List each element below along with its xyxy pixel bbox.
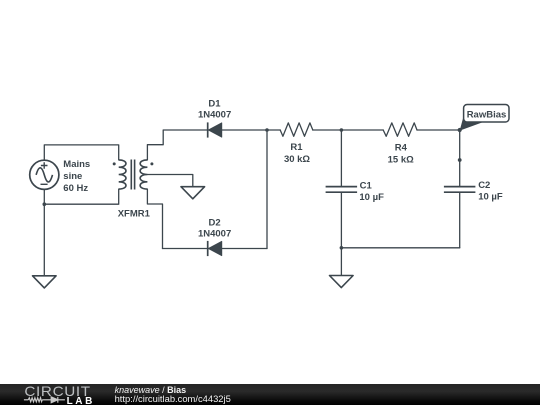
svg-text:R1: R1 xyxy=(290,142,303,153)
wire R1 to node B xyxy=(313,129,342,131)
diode D1 xyxy=(208,122,222,137)
svg-text:C2: C2 xyxy=(478,180,490,191)
svg-text:C1: C1 xyxy=(360,181,373,192)
wire to middle ground xyxy=(340,248,342,276)
wire source bottom xyxy=(43,189,45,204)
diode D2 xyxy=(208,241,222,256)
svg-text:XFMR1: XFMR1 xyxy=(118,209,151,220)
label D1 xyxy=(198,98,231,120)
wire C2 bottom lead xyxy=(459,192,461,248)
ground center tap xyxy=(181,187,205,199)
node B junction dot xyxy=(340,128,344,132)
wire D1 to node A xyxy=(222,129,267,131)
label R4 15 kOhm xyxy=(388,142,414,165)
wire R4 to RawBias node xyxy=(417,129,460,131)
svg-text:Mains: Mains xyxy=(63,159,90,170)
wire R4 left lead xyxy=(341,129,383,131)
svg-text:60 Hz: 60 Hz xyxy=(63,183,88,194)
wire primary bottom xyxy=(44,189,118,204)
node C2 wire dot xyxy=(458,158,462,162)
svg-text:10 µF: 10 µF xyxy=(478,191,503,202)
capacitor C1 xyxy=(326,187,358,193)
wire C1 top lead xyxy=(340,130,342,187)
svg-text:30 kΩ: 30 kΩ xyxy=(284,154,310,165)
wire secondary bottom xyxy=(147,189,162,248)
svg-text:1N4007: 1N4007 xyxy=(198,109,231,120)
svg-text:D1: D1 xyxy=(208,98,221,109)
wire to left ground xyxy=(43,204,45,276)
AC source V1 circle xyxy=(30,160,59,189)
transformer dot primary xyxy=(113,162,116,165)
wire D2 left lead from secondary bottom xyxy=(163,248,208,250)
svg-text:10 µF: 10 µF xyxy=(359,192,384,203)
wire RawBias node to C2 xyxy=(459,130,461,187)
label D2 xyxy=(198,218,231,240)
RawBias flag xyxy=(460,105,509,131)
svg-text:http://circuitlab.com/c4432j5: http://circuitlab.com/c4432j5 xyxy=(115,393,231,404)
svg-text:D2: D2 xyxy=(209,218,221,229)
capacitor C2 xyxy=(444,187,476,193)
label C1 10 uF xyxy=(359,181,384,203)
node RawBias junction dot xyxy=(458,128,462,132)
node left junction dot xyxy=(43,202,47,206)
svg-text:sine: sine xyxy=(63,171,82,182)
svg-text:1N4007: 1N4007 xyxy=(198,229,231,240)
wire bottom rail C1 to C2 xyxy=(341,247,459,249)
wire source top to primary top xyxy=(44,145,118,160)
wire center tap to ground xyxy=(147,175,192,187)
resistor R1 xyxy=(280,123,313,136)
wire secondary top to D1 xyxy=(147,130,207,160)
svg-text:15 kΩ: 15 kΩ xyxy=(388,155,414,166)
wire R1 left lead xyxy=(267,129,280,131)
label Mains sine 60 Hz xyxy=(63,159,90,194)
transformer dot secondary xyxy=(150,162,153,165)
wire C1 bottom lead xyxy=(340,192,342,248)
footer bar xyxy=(0,384,540,405)
footer logo circuit line xyxy=(24,397,65,403)
transformer XFMR1 xyxy=(119,160,148,190)
wire node A down to D2 xyxy=(266,130,268,249)
svg-text:RawBias: RawBias xyxy=(467,109,507,120)
svg-text:R4: R4 xyxy=(395,142,408,153)
resistor R4 xyxy=(383,123,417,136)
label R1 30 kOhm xyxy=(284,142,310,165)
svg-text:LAB: LAB xyxy=(67,396,95,405)
wire D2 right lead xyxy=(222,248,267,250)
node bottom junction dot xyxy=(340,246,344,250)
label C2 10 uF xyxy=(478,180,503,202)
node A junction dot xyxy=(265,128,269,132)
ground middle xyxy=(330,276,354,288)
ground left xyxy=(33,276,57,288)
